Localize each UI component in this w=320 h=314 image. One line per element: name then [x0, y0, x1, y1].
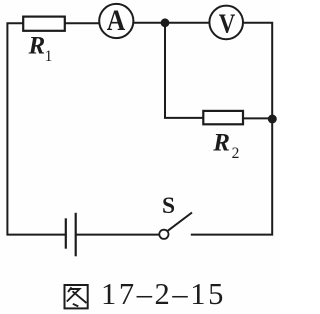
resistor R1	[23, 17, 65, 31]
svg-text:A: A	[107, 4, 126, 37]
switch S pivot circle	[159, 230, 168, 239]
svg-text:1: 1	[45, 48, 53, 65]
ammeter A	[99, 4, 133, 38]
voltmeter V	[209, 6, 243, 40]
node junction dot right	[268, 115, 277, 124]
switch S lever	[167, 213, 192, 232]
battery negative plate	[65, 218, 67, 248]
wire R2 to right side	[243, 117, 273, 119]
wire branch from top node down and right to R2	[165, 23, 204, 118]
svg-text:2: 2	[232, 145, 240, 162]
wire left loop (top-left, left side, bottom-left to battery)	[7, 23, 65, 234]
resistor R2	[203, 111, 243, 124]
svg-text:V: V	[219, 9, 236, 39]
wire battery to switch	[77, 234, 160, 236]
battery positive plate	[75, 213, 77, 256]
caption glyph 图 (drawn)	[65, 285, 88, 308]
svg-text:R: R	[212, 130, 230, 157]
label R2	[212, 130, 239, 163]
node junction dot top	[161, 18, 170, 27]
wire right loop (voltmeter to top-right corner, right side, bottom-right to switch)	[191, 23, 272, 235]
wire ammeter to voltmeter	[134, 22, 209, 24]
svg-text:17–2–15: 17–2–15	[101, 277, 226, 311]
label R1	[28, 32, 53, 65]
svg-text:S: S	[162, 193, 175, 219]
wire R1 to ammeter	[65, 22, 100, 24]
svg-text:R: R	[28, 32, 46, 59]
